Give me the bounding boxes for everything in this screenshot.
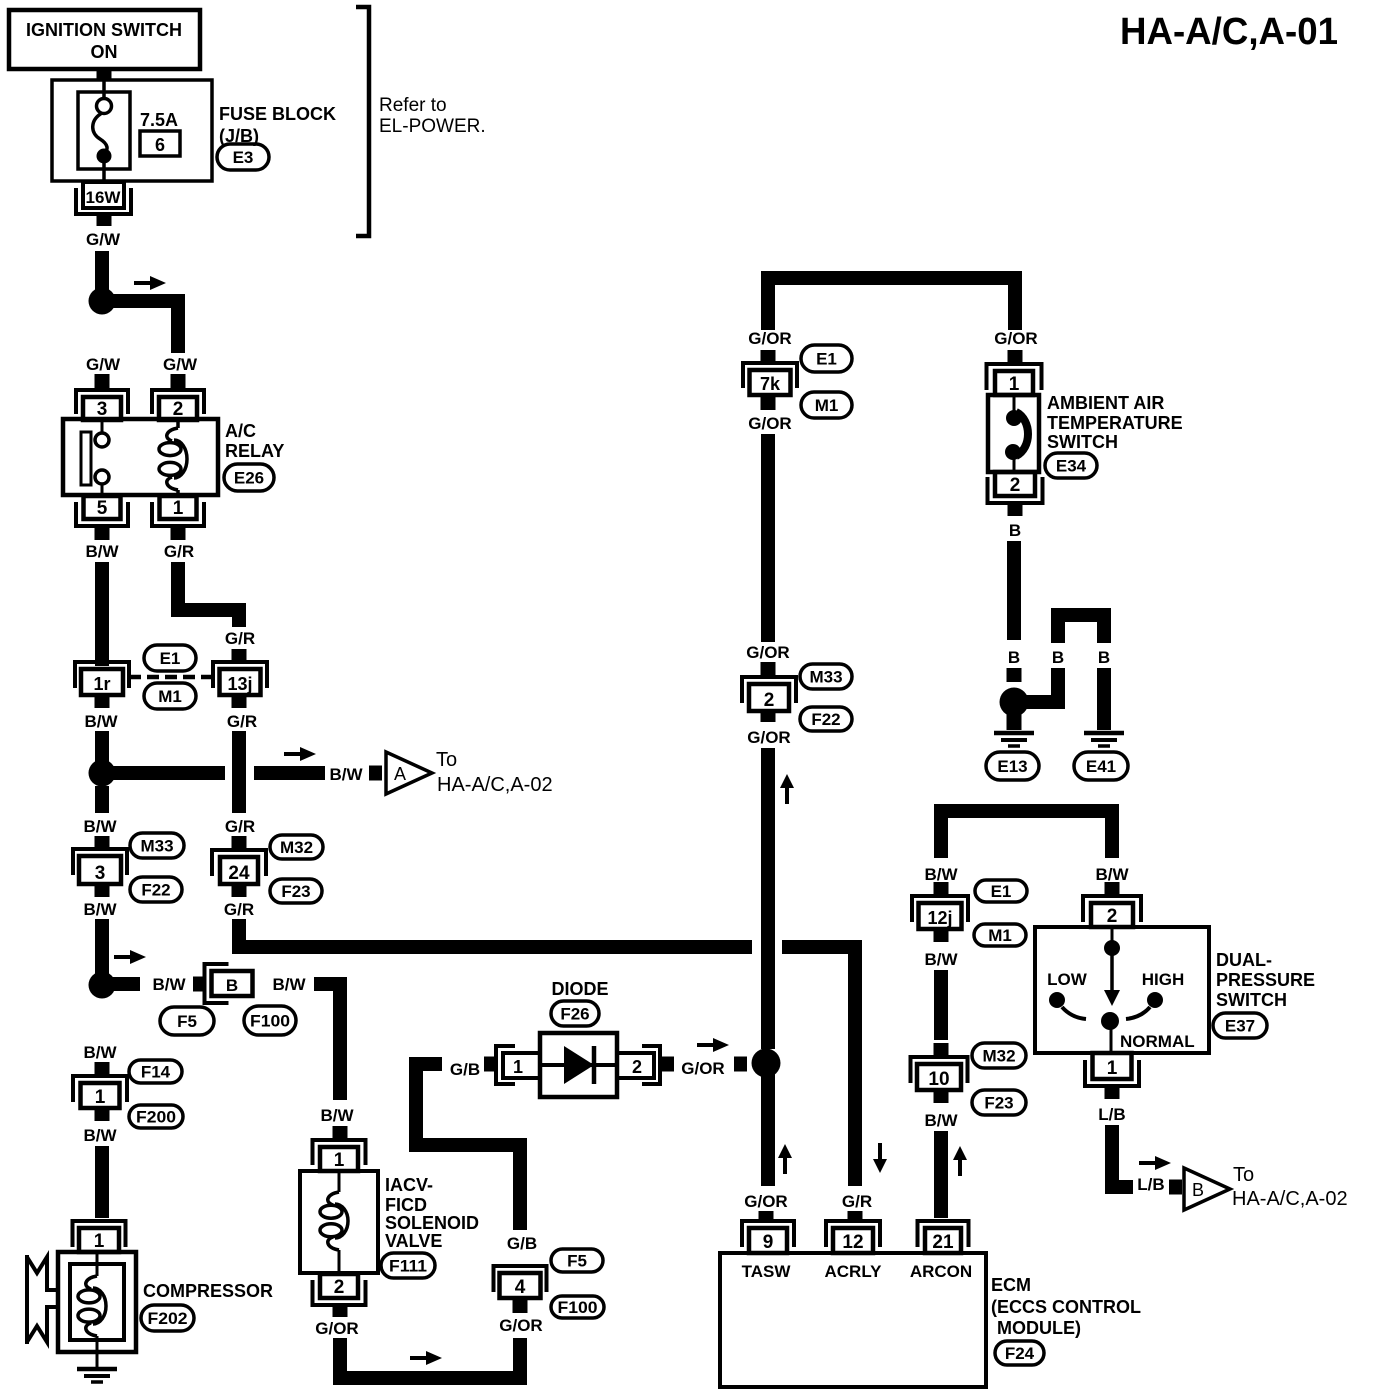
wire label G/OR right of diode (681, 1059, 724, 1078)
label A/C RELAY (225, 421, 284, 461)
splice 24 (212, 850, 266, 884)
svg-text:B/W: B/W (272, 975, 306, 994)
flow arrow right of diode (697, 1038, 729, 1052)
svg-text:HA-A/C,A-02: HA-A/C,A-02 (1232, 1188, 1348, 1210)
connector pin 2 of dual-pressure switch (1083, 896, 1141, 927)
connector F23 (splice 24) (270, 879, 322, 903)
wire: B/W loop 12j to dual-pressure switch (941, 811, 1112, 858)
label AMBIENT AIR TEMPERATURE SWITCH (1047, 393, 1183, 452)
svg-text:G/R: G/R (225, 817, 255, 836)
wire label G/OR above splice 2 (746, 643, 789, 662)
svg-text:EL-POWER.: EL-POWER. (379, 116, 486, 137)
svg-text:TEMPERATURE: TEMPERATURE (1047, 413, 1183, 433)
wire label G/OR left (748, 329, 791, 348)
A/C relay E26 box (63, 419, 218, 495)
relay coil (159, 419, 187, 496)
connector pin 1 of ambient air temperature switch (987, 364, 1042, 395)
flow arrow up above ECM pin 9 (778, 1144, 792, 1174)
wire stub below ambient pin 2 (1008, 503, 1023, 516)
svg-text:E1: E1 (816, 350, 837, 369)
connector pin 1 of IACV valve (313, 1140, 366, 1171)
wire stub above ECM pin 12 (848, 1211, 863, 1222)
junction node B/W 2 (89, 972, 116, 999)
wire stub below 12j (934, 929, 949, 942)
svg-text:M1: M1 (988, 926, 1012, 945)
wire: splice 24 to ECM pin 12 run (239, 919, 855, 1186)
svg-text:7.5A: 7.5A (140, 110, 178, 130)
connector pin 2 of ambient air temperature switch (988, 472, 1043, 503)
svg-text:5: 5 (97, 498, 108, 519)
refer bracket EL-POWER (356, 7, 486, 236)
wire stub right of diode pin 2 (661, 1057, 674, 1072)
wire stub left of diode pin 1 (484, 1057, 497, 1072)
splice 2 (M33/F22) (742, 677, 796, 711)
wire stub above splice 1 (95, 1062, 110, 1076)
wire stub above IACV pin 1 (333, 1126, 348, 1139)
wire label G/OR above ECM pin 9 (744, 1192, 787, 1211)
connector pin 2 of IACV valve (313, 1274, 366, 1305)
fuse 7.5A symbol (78, 78, 130, 182)
wire label L/B below DP switch (1098, 1105, 1125, 1124)
svg-text:1: 1 (94, 1231, 105, 1252)
junction node B (1000, 688, 1029, 717)
connector E26 (224, 464, 274, 491)
wire stub below 1r (95, 695, 110, 708)
connector M1 (1r/13j) (144, 683, 196, 709)
splice 12j (912, 896, 968, 929)
connector F200 (splice 1) (129, 1105, 183, 1128)
wire label B loop right (1098, 648, 1110, 667)
diode F26 box (540, 1033, 617, 1097)
svg-text:4: 4 (515, 1277, 526, 1298)
svg-text:1: 1 (513, 1057, 523, 1077)
svg-text:G/R: G/R (224, 900, 254, 919)
svg-text:SWITCH: SWITCH (1047, 432, 1118, 452)
svg-text:7k: 7k (760, 374, 781, 394)
svg-text:F24: F24 (1005, 1344, 1035, 1363)
svg-text:E26: E26 (234, 469, 264, 488)
svg-text:G/R: G/R (164, 542, 194, 561)
svg-text:E13: E13 (997, 757, 1027, 776)
wire label G/R above splice 24 (225, 817, 255, 836)
svg-text:FUSE BLOCK: FUSE BLOCK (219, 104, 336, 124)
svg-text:2: 2 (334, 1277, 345, 1298)
wire label B loop left (1052, 648, 1064, 667)
wire stub below pin 1 (171, 527, 186, 540)
flow arrow right on bottom loop (410, 1351, 442, 1365)
connector F24 (995, 1341, 1044, 1365)
svg-text:B/W: B/W (83, 1126, 117, 1145)
ignition switch power source (9, 10, 200, 69)
wire: B/W branch to connector A (109, 766, 325, 780)
svg-text:2: 2 (632, 1057, 642, 1077)
label DUAL-PRESSURE SWITCH (1216, 950, 1315, 1010)
wire label B/W below 12j (924, 950, 958, 969)
fuse number 6 (140, 131, 180, 156)
svg-text:M33: M33 (140, 837, 173, 856)
wire: junction G/OR to ECM pin 9 (761, 1070, 775, 1186)
svg-text:E3: E3 (233, 148, 254, 167)
connector E34 (1045, 453, 1097, 478)
svg-text:B/W: B/W (83, 1043, 117, 1062)
svg-text:L/B: L/B (1098, 1105, 1125, 1124)
svg-text:M1: M1 (158, 687, 182, 706)
svg-text:HIGH: HIGH (1142, 970, 1185, 989)
svg-text:2: 2 (764, 690, 775, 711)
wire stub below 16W (97, 214, 112, 226)
IACV solenoid coil (320, 1171, 348, 1273)
title HA-A/C,A-01 (1120, 11, 1338, 53)
connector F5 (B) (160, 1007, 214, 1035)
flow arrow down above ECM pin 12 (873, 1143, 887, 1173)
svg-text:ACRLY: ACRLY (825, 1262, 883, 1281)
connector E41 (1074, 752, 1128, 780)
svg-text:G/OR: G/OR (747, 728, 790, 747)
wire: ignition switch to fuse block (97, 67, 112, 80)
connector E1 (7k) (801, 345, 852, 372)
wire stub above splice 2 (761, 662, 776, 676)
wire stub above ground junction (1007, 668, 1022, 682)
wire: IACV pin 2 to connector 4 loop (340, 1338, 520, 1378)
wire: splice 1 to compressor (95, 1146, 109, 1218)
wire stub before G/OR junction (734, 1057, 747, 1072)
svg-text:B/W: B/W (924, 950, 958, 969)
svg-text:1: 1 (1009, 374, 1020, 395)
svg-text:G/OR: G/OR (994, 329, 1037, 348)
wire label B/W above IACV (320, 1106, 354, 1125)
wire: 1r to junction (95, 731, 109, 768)
wire label B above junction (1008, 648, 1020, 667)
svg-text:(ECCS CONTROL: (ECCS CONTROL (991, 1297, 1141, 1317)
connector pin 1 of A/C relay (152, 496, 204, 526)
splice 1 (F14/F200) (73, 1076, 127, 1108)
wire label G/R (164, 542, 194, 561)
wire: splice 3 to junction 2 (95, 919, 109, 980)
svg-text:M1: M1 (815, 396, 839, 415)
wire: connector B to IACV valve (314, 984, 340, 1100)
svg-text:B/W: B/W (83, 900, 117, 919)
flow arrow up on G/OR (780, 774, 794, 804)
compressor F202 box (58, 1252, 136, 1352)
svg-text:HA-A/C,A-02: HA-A/C,A-02 (437, 774, 553, 796)
svg-text:2: 2 (1107, 906, 1118, 927)
svg-text:F14: F14 (141, 1063, 171, 1082)
connector pin 1 of compressor (73, 1221, 126, 1252)
svg-text:NORMAL: NORMAL (1120, 1032, 1195, 1051)
wire stub below DP pin 1 (1105, 1087, 1120, 1099)
splice 1r (75, 662, 129, 695)
svg-text:B: B (1098, 648, 1110, 667)
wire: connector 4 to diode pin 1 (416, 1064, 520, 1230)
label HIGH (1142, 970, 1185, 989)
ground E13 (994, 714, 1034, 746)
wire stub above pin 3 (95, 374, 110, 389)
connector E37 (1213, 1013, 1267, 1038)
svg-text:G/B: G/B (450, 1060, 480, 1079)
wire stub above splice 10 (934, 1043, 949, 1057)
wire stub below splice 24 (232, 884, 247, 897)
connector F26 (diode) (551, 1001, 599, 1026)
dual-pressure switch E37 box (1035, 927, 1209, 1053)
svg-text:F26: F26 (560, 1005, 589, 1024)
connector pin 9 of ECM (742, 1221, 794, 1253)
connector pin 3 of A/C relay (76, 390, 128, 420)
svg-text:G/OR: G/OR (746, 643, 789, 662)
wire label B/W (85, 542, 119, 561)
wire stub above 13j (232, 649, 247, 663)
svg-text:SOLENOID: SOLENOID (385, 1213, 479, 1233)
wire label B/W right of B (272, 975, 306, 994)
connector M32 (splice 10) (972, 1043, 1026, 1068)
connector pin 1 of diode (496, 1046, 540, 1084)
svg-text:G/R: G/R (227, 712, 257, 731)
svg-text:B/W: B/W (84, 712, 118, 731)
svg-text:24: 24 (228, 863, 250, 884)
wire stub before connector B triangle (1169, 1180, 1182, 1195)
junction node B/W (89, 760, 116, 787)
wire label B/W below splice 10 (924, 1111, 958, 1130)
svg-text:G/OR: G/OR (315, 1319, 358, 1338)
svg-text:1: 1 (1107, 1058, 1118, 1079)
connector M1 (12j) (974, 924, 1026, 946)
wire label G/W branch (163, 355, 198, 374)
flow arrow right (134, 276, 166, 290)
flow arrow right above junction 2 (114, 950, 146, 964)
svg-text:13j: 13j (227, 674, 252, 694)
svg-text:B/W: B/W (83, 817, 117, 836)
svg-text:B/W: B/W (924, 865, 958, 884)
svg-text:PRESSURE: PRESSURE (1216, 970, 1315, 990)
wire stub above 7k (761, 350, 776, 364)
connector pin 12 of ECM (826, 1221, 880, 1253)
svg-text:B/W: B/W (329, 765, 363, 784)
svg-text:B: B (226, 976, 238, 995)
svg-text:FICD: FICD (385, 1195, 427, 1215)
flow arrow right on B/W branch (284, 747, 316, 761)
svg-text:G/R: G/R (842, 1192, 872, 1211)
svg-text:16W: 16W (86, 188, 122, 207)
svg-text:ECM: ECM (991, 1275, 1031, 1295)
connector pin 2 of A/C relay (152, 390, 204, 420)
svg-text:B/W: B/W (1095, 865, 1129, 884)
splice 4 (F5/F100) (494, 1266, 547, 1298)
wire label G/R below 13j (227, 712, 257, 731)
wire label G/B at diode (450, 1060, 480, 1079)
wire stub above pin 2 (171, 374, 186, 389)
wire stub below splice 2 (761, 711, 776, 722)
wire label G/OR below splice 2 (747, 728, 790, 747)
wire label B/W below splice 1 (83, 1126, 117, 1145)
svg-text:Refer to: Refer to (379, 95, 447, 116)
wire label G/W (86, 230, 121, 249)
svg-text:G/OR: G/OR (744, 1192, 787, 1211)
wire: top G/OR loop (768, 278, 1015, 330)
wire stub below 7k (761, 395, 776, 410)
wire stub above splice 3 (95, 836, 110, 850)
relay contact (81, 419, 109, 496)
wire: relay pin 5 to splice 1r (95, 562, 109, 666)
wire stub below splice 3 (95, 884, 110, 897)
connector E1 (12j) (975, 880, 1027, 902)
label ACRLY (825, 1262, 883, 1281)
wire label G/B above connector 4 (507, 1234, 537, 1253)
wire: 13j down to splice 24 (232, 731, 246, 813)
ground E41 (1084, 733, 1124, 746)
connector F202 (141, 1305, 194, 1331)
ambient air temperature switch E34 box (988, 395, 1039, 472)
svg-text:MODULE): MODULE) (997, 1318, 1081, 1338)
label ARCON (910, 1262, 972, 1281)
wire stub before connector A (369, 766, 382, 781)
wire label B/W above DP switch (1095, 865, 1129, 884)
wire stub below splice 1 (95, 1108, 110, 1121)
svg-text:DIODE: DIODE (551, 979, 608, 999)
wire label G/OR below IACV (315, 1319, 358, 1338)
svg-text:To: To (436, 749, 457, 771)
label IACV-FICD SOLENOID VALVE (385, 1175, 479, 1251)
svg-text:IGNITION SWITCH: IGNITION SWITCH (26, 20, 182, 40)
svg-text:F23: F23 (281, 882, 310, 901)
svg-text:F202: F202 (148, 1309, 188, 1328)
svg-text:E1: E1 (160, 649, 181, 668)
svg-text:9: 9 (763, 1232, 774, 1253)
wire stub above splice 24 (232, 836, 247, 849)
svg-text:1: 1 (95, 1087, 106, 1108)
wire label G/OR below 7k (748, 414, 791, 433)
svg-text:G/B: G/B (507, 1234, 537, 1253)
svg-text:AMBIENT AIR: AMBIENT AIR (1047, 393, 1164, 413)
wire: 12j to splice 10 (934, 970, 948, 1040)
splice 3 (73, 849, 127, 884)
dashed link E1/M1 (129, 675, 213, 680)
connector M32 (splice 24) (270, 835, 323, 859)
wire label B/W above splice 3 (83, 817, 117, 836)
connector M33 (splice 3) (130, 833, 184, 858)
svg-text:E37: E37 (1225, 1017, 1255, 1036)
svg-text:F22: F22 (141, 881, 170, 900)
svg-text:21: 21 (932, 1232, 954, 1253)
wire: DP switch to connector B out (1112, 1125, 1133, 1187)
wire label G/OR right (994, 329, 1037, 348)
svg-text:G/W: G/W (163, 355, 198, 374)
wire label B/W left of B (152, 975, 186, 994)
svg-text:VALVE: VALVE (385, 1231, 442, 1251)
svg-text:DUAL-: DUAL- (1216, 950, 1272, 970)
wire: 7k down to splice 2 (761, 434, 775, 642)
svg-text:M32: M32 (280, 838, 313, 857)
wire stub below connector 4 (513, 1300, 528, 1313)
connector E1 (1r/13j) (144, 645, 196, 671)
splice 13j (213, 662, 267, 695)
flow arrow up above ECM pin 21 (953, 1146, 967, 1176)
svg-text:F100: F100 (250, 1012, 290, 1031)
splice 7k (743, 363, 797, 395)
wire stub above 12j (934, 882, 949, 896)
wire label B/W above 12j (924, 865, 958, 884)
connector F5 (4) (551, 1249, 603, 1272)
wire label G/R above ECM pin 12 (842, 1192, 872, 1211)
svg-text:G/OR: G/OR (681, 1059, 724, 1078)
wire: junction 2 to connector B (109, 977, 140, 991)
connector F100 (4) (551, 1296, 604, 1318)
svg-text:G/OR: G/OR (748, 329, 791, 348)
svg-text:M32: M32 (982, 1047, 1015, 1066)
svg-text:B: B (1008, 648, 1020, 667)
connector pin 2 of diode (617, 1046, 660, 1084)
connector F14 (splice 1) (129, 1060, 182, 1083)
wire label L/B at connector B (1137, 1175, 1164, 1194)
svg-text:ON: ON (91, 42, 118, 62)
wire label B below ambient switch (1009, 521, 1021, 540)
connector A to HA-A/C,A-02 (386, 749, 553, 796)
wire stub above DP pin 2 (1105, 882, 1120, 896)
svg-text:1: 1 (334, 1150, 345, 1171)
svg-text:F5: F5 (177, 1012, 197, 1031)
connector M33 (splice 2) (800, 664, 852, 689)
junction node G/OR (752, 1049, 781, 1078)
fuse block (J/B) E3 box (52, 80, 212, 181)
fuse value 7.5A (140, 110, 178, 130)
connector pin 5 of A/C relay (76, 496, 128, 526)
svg-text:B/W: B/W (924, 1111, 958, 1130)
connector B to HA-A/C,A-02 (1184, 1164, 1348, 1210)
wire: splice 2 to junction G/OR (761, 748, 775, 1049)
wire stub above ECM pin 9 (759, 1211, 774, 1222)
svg-text:B: B (1009, 521, 1021, 540)
svg-text:10: 10 (928, 1069, 949, 1090)
label FUSE BLOCK (J/B) (219, 104, 336, 146)
svg-text:F111: F111 (389, 1257, 427, 1276)
wire label G/R above 13j (225, 629, 255, 648)
wire label B/W at branch (329, 765, 363, 784)
wire stub below 13j (232, 695, 247, 708)
svg-text:6: 6 (155, 135, 165, 155)
label LOW (1047, 970, 1088, 989)
junction node G/W (89, 288, 116, 315)
svg-text:F100: F100 (558, 1298, 598, 1317)
svg-text:F200: F200 (136, 1108, 176, 1127)
wire: relay pin 1 to splice 13j (178, 562, 239, 627)
connector pin 1 of dual-pressure switch (1085, 1053, 1139, 1086)
svg-text:To: To (1233, 1164, 1254, 1186)
label COMPRESSOR (143, 1281, 273, 1301)
svg-text:E1: E1 (991, 882, 1012, 901)
svg-text:M33: M33 (809, 668, 842, 687)
svg-text:B/W: B/W (152, 975, 186, 994)
svg-text:1: 1 (173, 498, 184, 519)
label NORMAL (1120, 1032, 1195, 1051)
svg-text:2: 2 (1010, 475, 1021, 496)
svg-text:G/R: G/R (225, 629, 255, 648)
svg-text:COMPRESSOR: COMPRESSOR (143, 1281, 273, 1301)
svg-text:ARCON: ARCON (910, 1262, 972, 1281)
connector E3 (217, 144, 269, 170)
connector 16W (76, 182, 131, 214)
svg-text:G/W: G/W (86, 230, 121, 249)
svg-text:F22: F22 (811, 710, 840, 729)
wire: ambient switch to ground junction (1007, 541, 1021, 640)
label DIODE (551, 979, 608, 999)
wire label G/R below splice 24 (224, 900, 254, 919)
svg-text:LOW: LOW (1047, 970, 1088, 989)
connector M1 (7k) (801, 392, 852, 418)
svg-text:B/W: B/W (85, 542, 119, 561)
wire label G/OR below connector 4 (499, 1316, 542, 1335)
wire label B/W below 1r (84, 712, 118, 731)
wire label B/W above splice 1 (83, 1043, 117, 1062)
svg-text:G/W: G/W (86, 355, 121, 374)
svg-text:HA-A/C,A-01: HA-A/C,A-01 (1120, 11, 1338, 53)
